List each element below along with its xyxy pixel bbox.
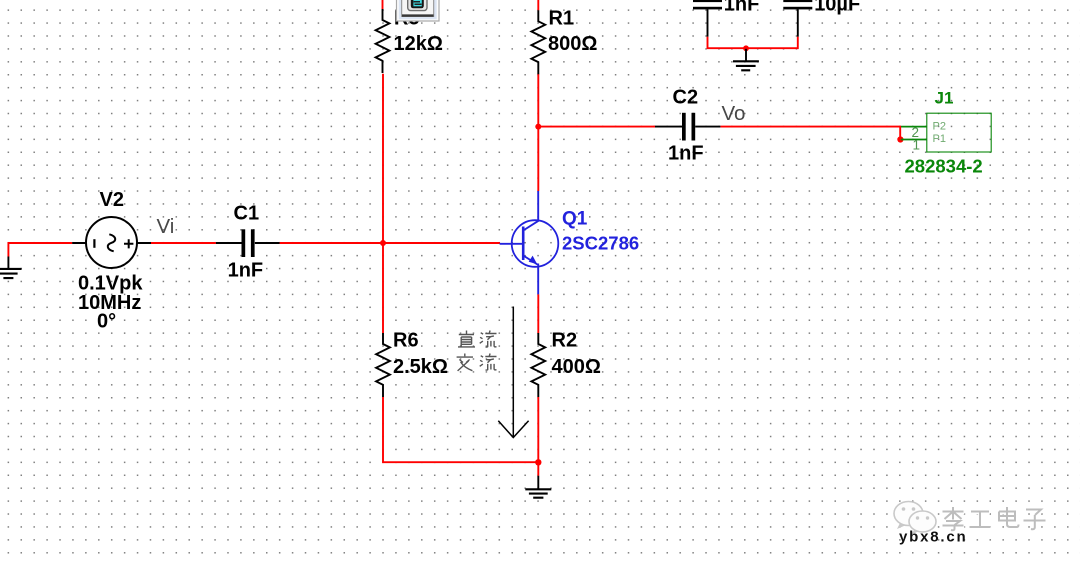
svg-text:P1: P1 [933, 133, 946, 145]
svg-text:1nF: 1nF [724, 0, 760, 16]
svg-text:ybx8.cn: ybx8.cn [899, 529, 967, 546]
svg-text:800Ω: 800Ω [548, 33, 597, 55]
svg-text:Vi: Vi [157, 215, 175, 238]
svg-text:Q1: Q1 [562, 209, 588, 230]
svg-text:C2: C2 [673, 86, 699, 108]
svg-text:1nF: 1nF [668, 142, 704, 164]
svg-text:R2: R2 [552, 330, 578, 352]
svg-text:2.5kΩ: 2.5kΩ [393, 356, 448, 378]
svg-text:0°: 0° [97, 311, 116, 333]
svg-text:R1: R1 [549, 7, 575, 29]
svg-text:1: 1 [913, 138, 921, 153]
svg-text:2SC2786: 2SC2786 [562, 233, 639, 254]
svg-text:V2: V2 [100, 189, 124, 211]
svg-text:10µF: 10µF [814, 0, 860, 16]
svg-text:C1: C1 [234, 202, 260, 224]
svg-text:J1: J1 [935, 88, 954, 107]
svg-text:P2: P2 [933, 121, 946, 133]
svg-text:12kΩ: 12kΩ [394, 33, 443, 55]
svg-text:400Ω: 400Ω [552, 356, 601, 378]
svg-text:Vo: Vo [722, 102, 746, 125]
svg-text:R6: R6 [393, 330, 419, 352]
svg-text:282834-2: 282834-2 [905, 156, 983, 177]
svg-text:1nF: 1nF [228, 260, 264, 282]
